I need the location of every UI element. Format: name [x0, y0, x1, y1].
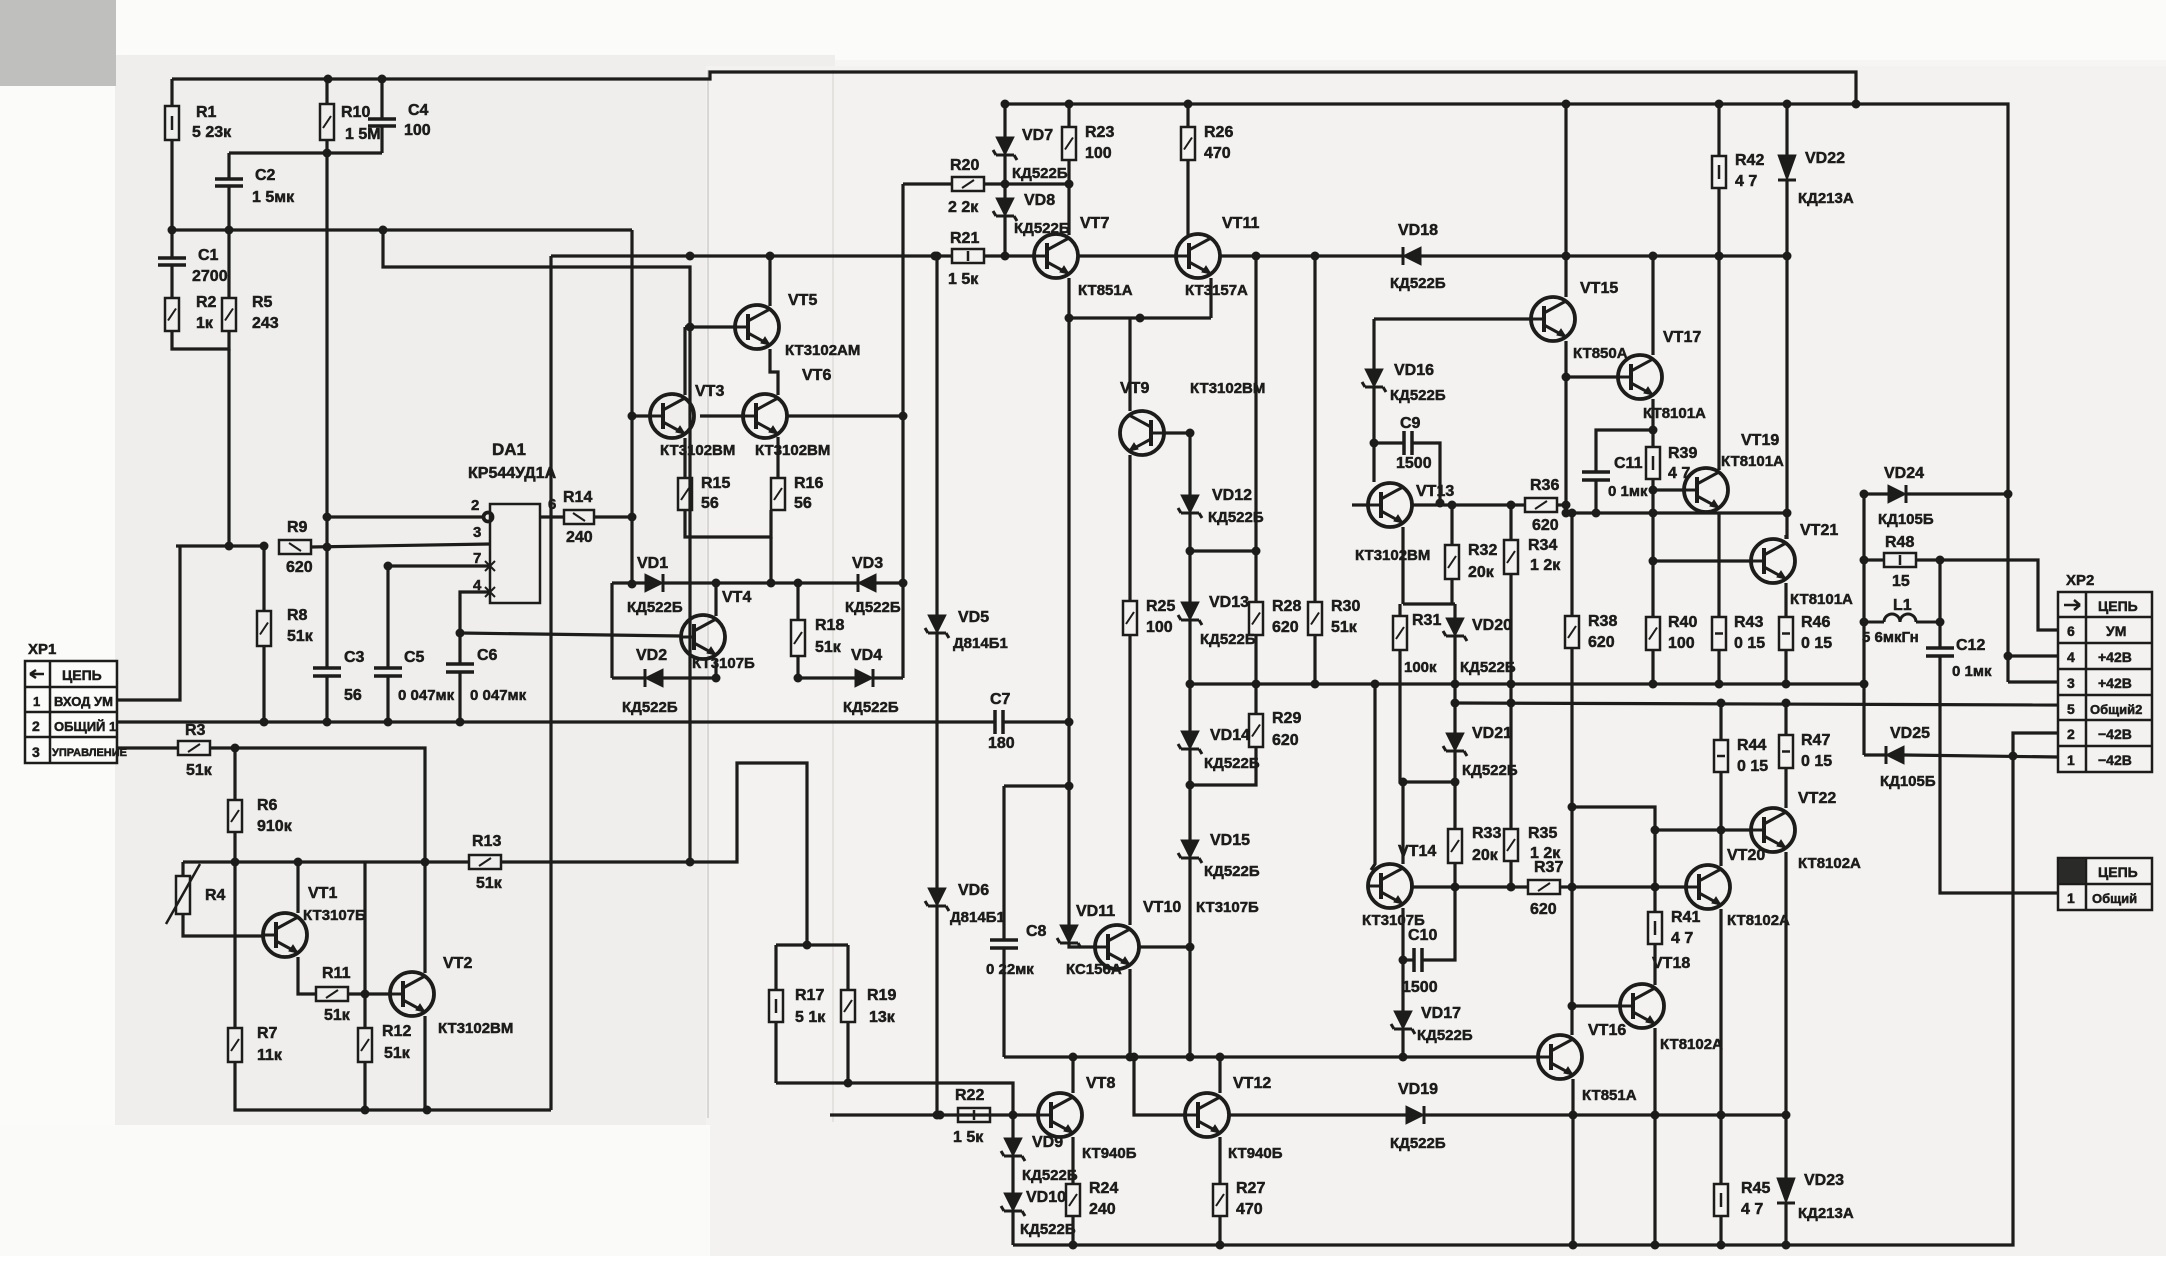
svg-text:КТ3107Б: КТ3107Б	[692, 655, 755, 672]
wire VT2 emitter	[423, 1016, 426, 1110]
wire R38 to VT16	[1570, 648, 1573, 1035]
svg-text:2: 2	[2067, 726, 2075, 742]
diode VD12 KD522Б	[1178, 495, 1202, 518]
wire R21 to VT7 base	[984, 254, 1034, 257]
junction feedback R13	[686, 858, 695, 867]
svg-text:КД522Б: КД522Б	[1390, 387, 1446, 404]
svg-text:VD19: VD19	[1398, 1081, 1438, 1098]
resistor R46	[1779, 617, 1793, 650]
junction VD1 node	[628, 580, 637, 589]
svg-text:КТ3102ВМ: КТ3102ВМ	[1190, 380, 1265, 397]
wire VT5 emitter to VT6	[770, 349, 778, 395]
svg-text:VD10: VD10	[1026, 1189, 1066, 1206]
junction y318	[1065, 314, 1074, 323]
wire C4 bottom lead	[380, 126, 383, 153]
svg-text:КД522Б: КД522Б	[1460, 659, 1516, 676]
wire x1655 to bottom	[1653, 1115, 1656, 1245]
svg-text:0 1мк: 0 1мк	[1952, 663, 1992, 680]
junction R8 top	[260, 542, 269, 551]
resistor R42	[1712, 156, 1726, 188]
junction R48 left	[1860, 556, 1869, 565]
diode VD15 KD522Б	[1178, 840, 1202, 863]
diode VD14 KD522Б	[1178, 731, 1202, 754]
svg-text:5 6мкГн: 5 6мкГн	[1862, 629, 1919, 646]
junction C11 bottom	[1592, 509, 1601, 518]
junction R38 y513	[1568, 509, 1577, 518]
junction R23 bottom	[1065, 180, 1074, 189]
svg-text:VT18: VT18	[1652, 955, 1690, 972]
svg-text:R34: R34	[1528, 537, 1557, 554]
svg-text:КД522Б: КД522Б	[1390, 1135, 1446, 1152]
wire VD3 right	[876, 581, 903, 584]
wire R42 column	[1717, 188, 1720, 470]
junction VD column bus	[1186, 1053, 1195, 1062]
svg-text:КД213А: КД213А	[1798, 190, 1854, 207]
junction VD7 VD8	[1001, 180, 1010, 189]
junction R19 bottom	[844, 1079, 853, 1088]
svg-text:13к: 13к	[869, 1009, 896, 1026]
svg-text:C9: C9	[1400, 415, 1421, 432]
svg-text:−42В: −42В	[2098, 752, 2132, 768]
svg-text:R44: R44	[1737, 737, 1766, 754]
pin 7 mark	[485, 561, 495, 571]
resistor R1	[165, 106, 179, 140]
junction y551	[1186, 547, 1195, 556]
wire R43 bottom lead	[1717, 650, 1720, 684]
junction VD24 output	[1860, 490, 1869, 499]
diode VD17 KD522Б	[1391, 1011, 1415, 1034]
svg-text:R41: R41	[1671, 909, 1700, 926]
wire VT10 emitter	[1128, 969, 1131, 1057]
wire feedback column x632	[630, 230, 633, 584]
junction R28 column	[1252, 547, 1261, 556]
junction C7 column	[1065, 718, 1074, 727]
svg-text:2 2к: 2 2к	[948, 199, 979, 216]
wire R1 top lead	[170, 79, 173, 106]
junction R4 node	[231, 858, 240, 867]
svg-text:R28: R28	[1272, 598, 1301, 615]
wire R31 top lead	[1398, 604, 1401, 616]
wire R28 bottom lead	[1254, 635, 1257, 684]
wire VD13 to VD14	[1188, 620, 1191, 731]
junction +42 bus	[1783, 100, 1792, 109]
wire R6 top lead	[233, 748, 236, 800]
resistor R37	[1528, 880, 1560, 894]
junction R47 top	[1782, 699, 1791, 708]
resistor R6	[228, 800, 242, 832]
junction VT20 collector VT22 base	[1717, 826, 1726, 835]
junction R44 top	[1717, 699, 1726, 708]
svg-text:VD21: VD21	[1472, 725, 1512, 742]
wire top supply bus	[172, 72, 1856, 104]
resistor R44	[1714, 740, 1728, 772]
wire C12 to XP3	[1940, 656, 2058, 893]
wire VD15 bottom	[1188, 858, 1191, 1057]
transistor VT20 KT8102A	[1686, 865, 1730, 909]
wire R26 to VT11	[1186, 160, 1189, 235]
junction y256 rail	[1715, 252, 1724, 261]
svg-text:КД213А: КД213А	[1798, 1205, 1854, 1222]
junction R46 output bus	[1782, 680, 1791, 689]
junction y256 rail	[1783, 252, 1792, 261]
junction R18 top	[794, 579, 803, 588]
wire VT17 emitter stub	[1651, 399, 1654, 430]
svg-text:C1: C1	[198, 247, 219, 264]
wire R13 left	[365, 860, 469, 863]
wire VT5 collector	[768, 256, 771, 306]
junction pin4 VT4 base	[456, 629, 465, 638]
wire R12 top lead	[363, 994, 366, 1028]
junction +42 bus	[1184, 100, 1193, 109]
svg-text:КД522Б: КД522Б	[1462, 762, 1518, 779]
junction bus	[384, 718, 393, 727]
svg-text:R30: R30	[1331, 598, 1360, 615]
wire node A horizontal	[172, 228, 632, 231]
capacitor C9	[1404, 431, 1412, 455]
transistor VT8 KT940B	[1038, 1093, 1082, 1137]
wire VD11 top lead	[1067, 786, 1070, 925]
svg-text:100: 100	[404, 122, 431, 139]
svg-text:L1: L1	[1893, 597, 1912, 614]
svg-text:VD11: VD11	[1076, 903, 1115, 920]
wire VT7 VT11 link	[1078, 254, 1176, 257]
svg-text:1: 1	[2067, 752, 2075, 768]
svg-text:VD6: VD6	[958, 882, 989, 899]
wire VT1 emitter to R11	[298, 957, 316, 994]
transistor VT14 KT3107Б	[1368, 864, 1412, 908]
svg-text:51к: 51к	[815, 639, 842, 656]
wire XP1 row3	[117, 746, 178, 749]
wire VT3 collector	[683, 327, 686, 395]
wire VD24 to +42 rail	[1906, 492, 2008, 495]
junction VT16 bottom bus	[1569, 1241, 1578, 1250]
junction VD5 column top	[931, 252, 940, 261]
wire R31 bottom loop	[1400, 650, 1455, 782]
wire R21 left	[935, 254, 952, 257]
wire VT12 base branch	[1134, 1057, 1185, 1115]
svg-text:R25: R25	[1146, 598, 1175, 615]
wire R20 right	[984, 182, 1069, 185]
wire R10 top lead	[325, 79, 328, 104]
svg-text:КТ8101А: КТ8101А	[1721, 453, 1784, 470]
wire pin4 to C6	[460, 592, 490, 664]
svg-text:5 23к: 5 23к	[192, 124, 232, 141]
wire VT21 emitter to R46	[1784, 583, 1787, 617]
wire R35 top lead	[1509, 827, 1512, 829]
resistor R16	[771, 478, 785, 510]
junction x1655 branch	[1651, 826, 1660, 835]
svg-text:910к: 910к	[257, 818, 293, 835]
svg-text:VT15: VT15	[1580, 280, 1618, 297]
diode VD16 KD522Б	[1362, 369, 1386, 392]
junction feedback tap	[379, 226, 388, 235]
connector XP2	[2058, 592, 2152, 772]
svg-text:КД522Б: КД522Б	[1200, 631, 1256, 648]
wire R26 top lead	[1186, 104, 1189, 127]
diode VD11 KC156A	[1057, 925, 1081, 948]
resistor R33	[1448, 829, 1462, 863]
svg-text:VD4: VD4	[851, 647, 882, 664]
svg-text:VD18: VD18	[1398, 222, 1438, 239]
wire R32 top lead	[1450, 505, 1453, 545]
svg-text:2: 2	[471, 497, 479, 514]
svg-text:R12: R12	[382, 1023, 411, 1040]
junction R33 bottom	[1451, 883, 1460, 892]
resistor R23	[1062, 127, 1076, 160]
wire R12 bottom lead	[363, 1062, 366, 1110]
wire bias bottom to VD9 node	[776, 1083, 1013, 1115]
transistor VT3 KT3102BM	[650, 394, 694, 438]
svg-text:R13: R13	[472, 833, 501, 850]
svg-text:КД522Б: КД522Б	[627, 599, 683, 616]
wire VT19 base	[1653, 488, 1684, 491]
transistor VT1 KT3107Б	[263, 913, 307, 957]
resistor R26	[1181, 127, 1195, 160]
svg-text:КД522Б: КД522Б	[1417, 1027, 1473, 1044]
svg-text:VD13: VD13	[1209, 594, 1249, 611]
svg-text:КД105Б: КД105Б	[1880, 773, 1936, 790]
junction VD rail	[767, 579, 776, 588]
wire VD5 to VD6	[935, 633, 938, 888]
wire VT20 base rail right	[1560, 885, 1686, 888]
wire pin2	[327, 515, 484, 518]
svg-text:КТ3102ВМ: КТ3102ВМ	[1355, 547, 1430, 564]
diode VD9 KD522Б	[1001, 1138, 1025, 1161]
svg-text:C6: C6	[477, 647, 498, 664]
svg-text:КТ3107Б: КТ3107Б	[303, 907, 366, 924]
svg-text:R46: R46	[1801, 614, 1830, 631]
svg-text:620: 620	[1272, 619, 1299, 636]
junction VD22 y513	[1783, 509, 1792, 518]
wire C8 branch	[1004, 784, 1069, 787]
wire R15 R16 bottoms	[685, 510, 771, 537]
junction R12 top	[361, 990, 370, 999]
resistor R47	[1779, 735, 1793, 768]
junction +42 bus	[1715, 100, 1724, 109]
svg-text:XP2: XP2	[2066, 572, 2094, 589]
svg-text:R43: R43	[1734, 614, 1763, 631]
svg-text:ВХОД УМ: ВХОД УМ	[54, 694, 113, 709]
junction R34 output bus	[1507, 680, 1516, 689]
wire R6 to R7	[233, 832, 236, 1028]
resistor R32	[1445, 545, 1459, 579]
junction VD6 bottom	[936, 1111, 945, 1120]
wire VD16 top lead	[1372, 319, 1375, 369]
svg-text:КТ3102ВМ: КТ3102ВМ	[755, 442, 830, 459]
svg-text:C4: C4	[408, 102, 429, 119]
page edge 2	[832, 70, 834, 1122]
svg-text:КТ8102А: КТ8102А	[1798, 855, 1861, 872]
svg-text:VT5: VT5	[788, 292, 817, 309]
wire to XP2 pin2	[2013, 733, 2058, 756]
svg-text:R23: R23	[1085, 124, 1114, 141]
transistor VT19 KT8101A	[1684, 468, 1728, 512]
wire R45 bottom lead	[1719, 1216, 1722, 1245]
svg-text:VT20: VT20	[1727, 847, 1765, 864]
junction VT12 bus	[1216, 1053, 1225, 1062]
wire VT6 base	[700, 414, 743, 417]
svg-text:VD14: VD14	[1210, 727, 1250, 744]
svg-text:620: 620	[286, 559, 313, 576]
junction C9 left	[1370, 439, 1379, 448]
wire y551 stub	[1190, 549, 1256, 552]
transistor VT4 KT3107Б	[681, 615, 725, 659]
svg-text:R21: R21	[950, 230, 979, 247]
wire VT12 collector	[1218, 1057, 1221, 1093]
svg-text:3: 3	[473, 524, 481, 541]
wire R19 top lead	[846, 945, 849, 990]
junction y785	[1186, 781, 1195, 790]
resistor R28	[1249, 602, 1263, 635]
thermistor R4	[166, 864, 200, 924]
wire C10 to R33 node	[1422, 887, 1455, 960]
wire to XP2 pin3	[2008, 680, 2058, 683]
svg-text:КД522Б: КД522Б	[1390, 275, 1446, 292]
capacitor C4	[368, 119, 396, 126]
wire C8 top lead	[1002, 786, 1005, 940]
svg-text:R19: R19	[867, 987, 896, 1004]
svg-text:VT9: VT9	[1120, 380, 1149, 397]
svg-text:R2: R2	[196, 294, 217, 311]
wire C3 bottom lead	[325, 676, 328, 722]
wire VT13 base stub	[1352, 503, 1368, 506]
capacitor C3	[313, 668, 341, 676]
wire C10 left lead	[1403, 958, 1414, 961]
junction divider input	[225, 542, 234, 551]
wire pin4 to VT4 base	[460, 633, 681, 636]
svg-text:R40: R40	[1668, 614, 1697, 631]
junction -42 node	[2009, 752, 2018, 761]
svg-text:R20: R20	[950, 157, 979, 174]
svg-text:Д814Б1: Д814Б1	[953, 635, 1008, 652]
transistor VT15 KT850A	[1531, 297, 1575, 341]
svg-text:КТ940Б: КТ940Б	[1228, 1145, 1283, 1162]
svg-text:VD1: VD1	[637, 555, 668, 572]
svg-text:R42: R42	[1735, 152, 1764, 169]
svg-text:R22: R22	[955, 1087, 984, 1104]
svg-text:R1: R1	[196, 104, 217, 121]
svg-text:КТ8102А: КТ8102А	[1660, 1036, 1723, 1053]
svg-text:R4: R4	[205, 887, 226, 904]
junction y256 rail	[1252, 252, 1261, 261]
wire VD17 top lead	[1401, 960, 1404, 1011]
wire feedback to R13 node	[383, 230, 690, 862]
svg-text:620: 620	[1530, 901, 1557, 918]
junction x903	[899, 412, 908, 421]
svg-text:R39: R39	[1668, 445, 1697, 462]
junction VT20 base rail	[1568, 883, 1577, 892]
svg-text:0 22мк: 0 22мк	[986, 961, 1034, 978]
wire VD12 top	[1188, 433, 1191, 495]
junction R43 output bus	[1715, 680, 1724, 689]
junction VT14 collector	[1399, 778, 1408, 787]
svg-text:VD2: VD2	[636, 647, 667, 664]
wire VT12 to VD19	[1229, 1113, 1406, 1116]
wire C7 right	[1003, 720, 1069, 723]
svg-text:+42В: +42В	[2098, 675, 2132, 691]
svg-text:470: 470	[1236, 1201, 1263, 1218]
wire C11 R39 branch	[1596, 430, 1653, 472]
junction R40 output bus	[1649, 680, 1658, 689]
wire C9 left lead	[1374, 441, 1404, 444]
junction bus	[260, 718, 269, 727]
junction VT8 bus	[1069, 1053, 1078, 1062]
junction VT19 base	[1649, 486, 1658, 495]
wire VT22 emitter column	[1784, 852, 1787, 1178]
svg-text:R14: R14	[563, 489, 592, 506]
wire R8 top lead	[262, 546, 265, 611]
svg-text:УМ: УМ	[2106, 623, 2126, 639]
junction VT18 y1115	[1651, 1111, 1660, 1120]
resistor R31	[1393, 616, 1407, 650]
junction VT16 y1115	[1569, 1111, 1578, 1120]
junction R24 bottom bus	[1069, 1241, 1078, 1250]
wire VT3 base	[632, 414, 650, 417]
junction y256 rail	[1649, 252, 1658, 261]
svg-text:0 047мк: 0 047мк	[470, 687, 527, 704]
junction C4 top	[378, 75, 387, 84]
junction VD12 top	[1186, 429, 1195, 438]
wire R38 top lead	[1570, 513, 1573, 616]
wire VD23 bottom lead	[1784, 1203, 1787, 1245]
wire VT15 collector column	[1564, 104, 1567, 297]
wire output to XP2 pin6	[1916, 560, 2058, 630]
wire R41 to VT18	[1653, 944, 1656, 985]
svg-text:VT3: VT3	[695, 383, 724, 400]
junction VT10 bus	[1126, 1053, 1135, 1062]
junction C10 left	[1399, 956, 1408, 965]
wire R17 top lead	[774, 945, 777, 990]
svg-text:DA1: DA1	[492, 440, 526, 459]
junction y256 rail	[1562, 252, 1571, 261]
wire VT16 emitter	[1571, 1079, 1574, 1245]
wire R11 to VT2 base	[348, 992, 390, 995]
wire y256 left segment	[551, 254, 935, 257]
svg-text:УПРАВЛЕНИЕ: УПРАВЛЕНИЕ	[52, 747, 127, 759]
diode VD18 KD522Б	[1403, 247, 1421, 265]
wire VT6 lead to R16	[776, 437, 779, 478]
diode VD25 KD105Б	[1886, 746, 1904, 764]
transistor VT9 KT3102BM	[1120, 411, 1164, 455]
wire VT12 emitter to R27	[1218, 1137, 1221, 1184]
wire R36 right	[1557, 503, 1566, 506]
wire VD25 left	[1864, 753, 1886, 756]
wire ground rail 2	[1455, 703, 2058, 705]
wire R35 bottom lead	[1509, 861, 1512, 887]
svg-text:20к: 20к	[1468, 564, 1495, 581]
wire C9 right lead	[1412, 443, 1440, 503]
junction R30 output bus	[1311, 680, 1320, 689]
diode VD19 KD522Б	[1406, 1106, 1424, 1124]
junction C8 tap	[1065, 782, 1074, 791]
wire VT19 emitter to R43	[1717, 512, 1720, 617]
wire R3 to R13 node	[210, 748, 425, 862]
svg-text:VT16: VT16	[1588, 1022, 1626, 1039]
resistor R14	[564, 510, 594, 524]
junction bottom bus	[1651, 1241, 1660, 1250]
junction VD8 base node	[1001, 252, 1010, 261]
svg-text:2: 2	[32, 718, 40, 734]
svg-text:VT7: VT7	[1080, 215, 1109, 232]
wire pin7	[388, 564, 490, 567]
svg-text:ОБЩИЙ 1: ОБЩИЙ 1	[54, 719, 116, 734]
pin 4 mark	[485, 587, 495, 597]
svg-text:1500: 1500	[1402, 979, 1438, 996]
diode VD1 KD522Б	[645, 574, 663, 592]
junction R36 emitter column	[1562, 501, 1571, 510]
wire R17 bottom lead	[774, 1022, 777, 1083]
junction +42 bus	[1065, 100, 1074, 109]
